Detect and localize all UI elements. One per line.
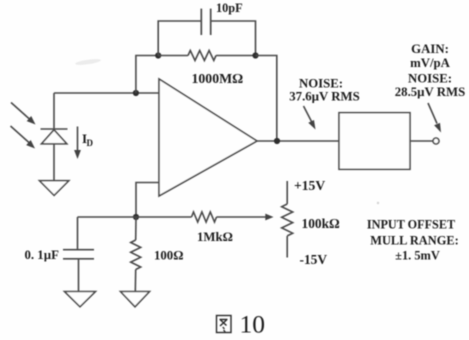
caption figure glyph [217, 316, 232, 333]
svg-text:100Ω: 100Ω [154, 249, 183, 263]
svg-text:mV/pA: mV/pA [410, 56, 451, 70]
wire: box to output terminal [410, 140, 433, 142]
svg-text:MULL RANGE:: MULL RANGE: [370, 234, 458, 248]
wiper arrow [265, 214, 273, 221]
ground (photodiode) [40, 181, 69, 196]
wire: bottom rail left [78, 216, 137, 218]
svg-text:0. 1µF: 0. 1µF [25, 248, 60, 262]
svg-text:-15V: -15V [300, 252, 328, 267]
svg-text:INPUT OFFSET: INPUT OFFSET [367, 218, 455, 232]
wire: capacitor branch right [211, 21, 256, 56]
svg-text:10pF: 10pF [216, 1, 243, 15]
svg-text:GAIN:: GAIN: [411, 42, 449, 56]
wire: capacitor branch left [158, 21, 201, 56]
resistor R1 1000M [158, 51, 255, 61]
wire: photodiode node to inverting input [54, 92, 160, 94]
potentiometer R4 100kOhm [282, 181, 293, 258]
svg-text:28.5µV RMS: 28.5µV RMS [395, 85, 465, 99]
svg-text:1000MΩ: 1000MΩ [192, 71, 244, 86]
wire: output [257, 140, 339, 142]
capacitor C2 0.1uF [63, 217, 94, 292]
node C feedback right junction [252, 52, 258, 58]
output terminal [433, 138, 439, 144]
svg-text:1MkΩ: 1MkΩ [197, 230, 233, 244]
speck [377, 202, 379, 204]
node D output junction [274, 138, 280, 144]
node E bottom junction [133, 214, 139, 220]
resistor R3 1MkOhm [136, 212, 266, 222]
svg-text:100kΩ: 100kΩ [302, 216, 341, 231]
capacitor C1 10pF [201, 9, 210, 35]
svg-text:37.6µV RMS: 37.6µV RMS [289, 90, 359, 104]
resistor R2 100Ohm [131, 217, 141, 292]
svg-text:10: 10 [240, 310, 266, 339]
node A summing junction [133, 90, 139, 96]
box output stage [339, 113, 410, 170]
annotation arrow to output terminal [428, 103, 441, 133]
wire: node A up to feedback branch [136, 56, 158, 94]
smudge [75, 58, 101, 66]
svg-text:+15V: +15V [294, 178, 325, 193]
ground (R2) [121, 292, 150, 307]
wire: non-inverting input [136, 183, 159, 218]
wire: feedback right vertical to output [256, 56, 277, 142]
label NOISE 37.6uV RMS [289, 77, 359, 104]
svg-text:NOISE:: NOISE: [408, 72, 452, 86]
svg-text:D: D [87, 138, 94, 148]
op-amp U1 [159, 79, 257, 196]
annotation arrow to output wire [304, 106, 316, 130]
label INPUT OFFSET MULL RANGE [367, 218, 459, 263]
svg-text:NOISE:: NOISE: [299, 77, 343, 91]
label ID [82, 131, 94, 148]
photodiode D1 [41, 93, 68, 181]
current arrow ID [74, 127, 81, 160]
ground (C2) [65, 292, 96, 307]
light arrow 1 [11, 103, 36, 125]
label GAIN mV/pA NOISE 28.5uV RMS [395, 42, 465, 99]
light arrow 2 [11, 126, 36, 149]
svg-text:±1. 5mV: ±1. 5mV [395, 249, 440, 263]
node B feedback left junction [155, 52, 161, 58]
